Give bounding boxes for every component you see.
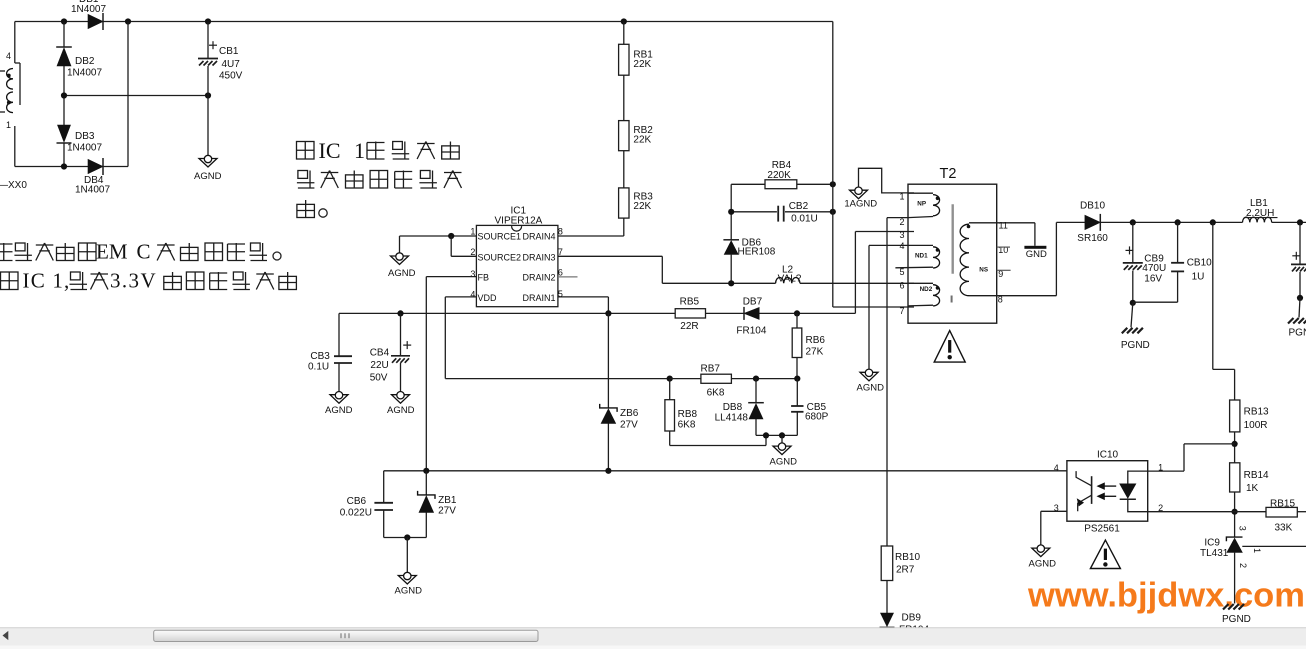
svg-text:VAL?: VAL? bbox=[778, 273, 802, 284]
svg-text:680P: 680P bbox=[805, 412, 829, 423]
wire HV rail down to T2 pin7 bbox=[832, 22, 834, 308]
resistor RB15 33K bbox=[1235, 511, 1266, 513]
capacitor CB5 680P bbox=[794, 376, 800, 382]
svg-text:6: 6 bbox=[558, 267, 563, 277]
svg-text:C: C bbox=[137, 240, 151, 264]
svg-text:1: 1 bbox=[470, 227, 475, 237]
diode DB8 LL4148 bbox=[753, 376, 759, 382]
svg-text:DB3: DB3 bbox=[75, 131, 95, 142]
svg-text:VIPER12A: VIPER12A bbox=[495, 216, 543, 227]
svg-text:3: 3 bbox=[1238, 526, 1248, 531]
svg-text:22K: 22K bbox=[633, 135, 651, 146]
svg-text:AGND: AGND bbox=[387, 405, 415, 416]
node top-left junctions bbox=[61, 18, 67, 24]
resistor RB13 100R bbox=[1230, 400, 1240, 432]
svg-text:1: 1 bbox=[6, 120, 11, 130]
IC10 light arrows bbox=[1101, 485, 1116, 487]
svg-text:RB13: RB13 bbox=[1244, 407, 1269, 418]
wire T2 pin8 riser to DB10 bbox=[1055, 222, 1057, 295]
node CB6/ZB1 bottom junction bbox=[404, 534, 410, 540]
diode DB4 1N4007 bbox=[88, 159, 103, 173]
svg-text:RB14: RB14 bbox=[1244, 470, 1269, 481]
capacitor CB9 470U 16V bbox=[1132, 222, 1134, 262]
wire RB13-RB14 bbox=[1234, 432, 1236, 463]
svg-text:CB2: CB2 bbox=[789, 201, 809, 212]
T2 winding ND2 bbox=[908, 282, 933, 284]
capacitor CB2 0.01U bbox=[731, 211, 777, 213]
wire feedback bus y471 bbox=[384, 470, 1067, 472]
wire T2 pin3 riser bbox=[854, 232, 856, 314]
diode DB2 1N4007 bbox=[56, 46, 72, 48]
svg-text:33K: 33K bbox=[1275, 523, 1293, 534]
resistor RB2 22K bbox=[619, 121, 629, 151]
wire L2 to T2 pin6 bbox=[800, 282, 914, 284]
svg-text:ZB1: ZB1 bbox=[438, 495, 457, 506]
diode DB6 HER108 bbox=[723, 239, 739, 241]
svg-text:27V: 27V bbox=[438, 506, 456, 517]
svg-text:22K: 22K bbox=[633, 201, 651, 212]
resistor RB6 27K bbox=[796, 313, 798, 328]
capacitor CB3 0.1U bbox=[338, 313, 340, 355]
svg-text:SR160: SR160 bbox=[1077, 233, 1108, 244]
wire IC1 pin1 SOURCE1 bbox=[400, 235, 477, 237]
svg-text:3: 3 bbox=[470, 269, 475, 279]
resistor RB1 22K bbox=[619, 44, 629, 75]
diode DB1 1N4007 bbox=[88, 14, 103, 28]
svg-text:DB9: DB9 bbox=[902, 613, 922, 624]
wire IC1 pin7 DRAIN3 to L2 bbox=[558, 255, 662, 257]
wire pin1 to AGND bbox=[399, 236, 401, 256]
ground AGND (T2 pin4) bbox=[860, 372, 878, 381]
svg-text:AGND: AGND bbox=[194, 171, 222, 182]
capacitor CB1 4U7 450V bbox=[207, 22, 209, 59]
svg-text:CB3: CB3 bbox=[310, 351, 330, 362]
svg-text:RB10: RB10 bbox=[895, 552, 920, 563]
svg-text:7: 7 bbox=[900, 306, 905, 316]
svg-text:6K8: 6K8 bbox=[678, 420, 696, 431]
wire bridge left vertical bbox=[63, 22, 65, 48]
ground AGND (IC10) bbox=[1032, 548, 1050, 557]
wire CB9 to PGND bbox=[1131, 303, 1133, 328]
svg-text:2: 2 bbox=[900, 217, 905, 227]
svg-text:2R7: 2R7 bbox=[896, 565, 915, 576]
T2 secondary winding NS bbox=[969, 222, 1035, 224]
svg-text:1N4007: 1N4007 bbox=[71, 4, 106, 15]
svg-text:EM: EM bbox=[96, 240, 128, 264]
svg-text:27V: 27V bbox=[620, 419, 638, 430]
ground 1AGND bbox=[850, 190, 868, 199]
wire 1AGND bracket bbox=[859, 168, 915, 193]
wire IC1 pin4 VDD path bbox=[445, 296, 476, 298]
wire feedback rail y313 bbox=[339, 312, 675, 314]
svg-text:22R: 22R bbox=[680, 321, 698, 332]
resistor RB14 1K bbox=[1230, 463, 1240, 492]
svg-text:SOURCE1: SOURCE1 bbox=[478, 232, 522, 242]
svg-text:DB10: DB10 bbox=[1080, 201, 1105, 212]
capacitor CB11 (right edge, cut) bbox=[1299, 222, 1301, 264]
svg-text:5: 5 bbox=[900, 267, 905, 277]
svg-text:10: 10 bbox=[998, 245, 1008, 255]
wire to AGND (DB8 net) bbox=[781, 435, 783, 445]
svg-text:1N4007: 1N4007 bbox=[75, 185, 110, 196]
svg-text:AGND: AGND bbox=[857, 383, 885, 394]
capacitor CB6 0.022U bbox=[383, 471, 385, 503]
wire T2 pin4 to AGND bbox=[869, 244, 908, 246]
resistor RB8 6K8 bbox=[669, 379, 671, 400]
scrollbar left arrow bbox=[3, 632, 8, 640]
wire DB8/CB5 bottom net bbox=[756, 434, 797, 436]
wire to AGND (CB6) bbox=[406, 538, 408, 576]
wire bridge right vertical bbox=[127, 22, 129, 167]
svg-text:1: 1 bbox=[1158, 462, 1163, 472]
annotation text: EMC filter circuit line 1 bbox=[0, 243, 13, 261]
svg-text:DRAIN3: DRAIN3 bbox=[522, 252, 555, 262]
IC10 internal LED bbox=[1128, 471, 1148, 484]
svg-text:RB7: RB7 bbox=[701, 363, 721, 374]
wire TL431 cathode down to PGND bbox=[1234, 552, 1236, 603]
warning triangle (under T2) bbox=[934, 331, 965, 363]
svg-text:1N4007: 1N4007 bbox=[67, 68, 102, 79]
svg-text:IC: IC bbox=[319, 138, 341, 163]
connector XX0 (cut off at left edge) bbox=[14, 22, 16, 64]
svg-text:AGND: AGND bbox=[395, 586, 423, 597]
svg-text:1: 1 bbox=[900, 192, 905, 202]
svg-text:16V: 16V bbox=[1144, 273, 1162, 284]
transistor/reference IC9 TL431 bbox=[1226, 537, 1242, 541]
svg-text:FR104: FR104 bbox=[736, 325, 766, 336]
IC10 phototransistor bbox=[1076, 471, 1092, 486]
svg-text:IC10: IC10 bbox=[1097, 449, 1119, 460]
T2 core bbox=[952, 204, 954, 273]
ground AGND (DB8/CB5) bbox=[773, 446, 791, 455]
wire bus to IC10 pin4 (already drawn), pin1 wire bbox=[1148, 470, 1184, 472]
opto-coupler IC10 PS2561 body bbox=[1067, 461, 1148, 522]
diode DB10 SR160 bbox=[1085, 215, 1100, 229]
svg-text:8: 8 bbox=[998, 295, 1003, 305]
wire RB1 chain top bbox=[623, 22, 625, 45]
diode DB9 FR104 bbox=[881, 613, 894, 626]
svg-text:www.bjjdwx.com: www.bjjdwx.com bbox=[1027, 577, 1305, 615]
svg-text:T2: T2 bbox=[940, 166, 957, 182]
wire IC1 pin2 SOURCE2 bbox=[451, 255, 476, 257]
wire RB1-RB2 bbox=[623, 75, 625, 120]
zener ZB1 27V bbox=[425, 471, 427, 495]
svg-text:22U: 22U bbox=[370, 360, 388, 371]
diode DB7 FR104 bbox=[744, 307, 759, 319]
svg-text:LL4148: LL4148 bbox=[715, 412, 749, 423]
svg-text:FB: FB bbox=[478, 273, 490, 283]
svg-text:2: 2 bbox=[1238, 563, 1248, 568]
svg-text:RB5: RB5 bbox=[680, 296, 700, 307]
svg-text:CB1: CB1 bbox=[219, 46, 239, 57]
op-amp U1 / controller IC1 VIPER12A body bbox=[476, 225, 558, 306]
svg-text:CB10: CB10 bbox=[1187, 257, 1212, 268]
ground PGND (right edge) bbox=[1288, 318, 1294, 324]
wire RB3 to IC1 pin8 bbox=[623, 218, 625, 236]
svg-text:4: 4 bbox=[1054, 463, 1059, 473]
wire IC10 pin2 to RB15 junction bbox=[1148, 511, 1235, 513]
svg-text:4U7: 4U7 bbox=[222, 59, 241, 70]
svg-text:0.022U: 0.022U bbox=[340, 508, 372, 519]
svg-text:NS: NS bbox=[979, 266, 988, 273]
svg-text:IC 1,: IC 1, bbox=[23, 269, 71, 293]
svg-text:450V: 450V bbox=[219, 71, 243, 82]
svg-text:PS2561: PS2561 bbox=[1084, 524, 1120, 535]
annotation text: you IC1 zu cheng de dian lu (standby control circuit) bbox=[297, 142, 315, 160]
svg-text:HER108: HER108 bbox=[738, 247, 776, 258]
scrollbar thumb grip bbox=[340, 633, 342, 638]
wire bridge bottom rail bbox=[15, 166, 128, 168]
annotation text: IC1 outputs 3.3V standby line 2 bbox=[1, 272, 19, 290]
ground PGND (TL431) bbox=[1223, 604, 1229, 610]
svg-text:AGND: AGND bbox=[388, 268, 416, 279]
svg-text:1K: 1K bbox=[1246, 483, 1259, 494]
svg-text:3.3V: 3.3V bbox=[110, 269, 157, 293]
wire TL431 ref to edge bbox=[1242, 545, 1306, 547]
svg-text:AGND: AGND bbox=[325, 405, 353, 416]
svg-text:DRAIN4: DRAIN4 bbox=[522, 232, 555, 242]
svg-text:4: 4 bbox=[6, 51, 11, 61]
wire IC1 pin3 FB vertical bbox=[426, 276, 476, 278]
wire CB11 to PGND bbox=[1299, 298, 1300, 318]
svg-text:PGND: PGND bbox=[1289, 328, 1306, 339]
svg-text:1: 1 bbox=[354, 138, 365, 163]
ground AGND (CB6/ZB1) bbox=[398, 576, 416, 585]
svg-text:RB6: RB6 bbox=[806, 335, 826, 346]
resistor RB7 6K8 bbox=[667, 376, 673, 382]
T2 pin9 stub bbox=[997, 269, 1011, 271]
svg-text:6K8: 6K8 bbox=[707, 387, 725, 398]
ground AGND (IC1 source) bbox=[391, 256, 409, 265]
svg-text:DRAIN1: DRAIN1 bbox=[522, 293, 555, 303]
svg-text:2: 2 bbox=[470, 247, 475, 257]
wire IC1 pin6 DRAIN2 stub bbox=[558, 276, 578, 278]
svg-text:3: 3 bbox=[900, 230, 905, 240]
resistor RB10 2R7 bbox=[881, 546, 893, 581]
svg-text:SOURCE2: SOURCE2 bbox=[478, 252, 522, 262]
warning triangle (under IC10) bbox=[1090, 540, 1120, 568]
svg-text:PGND: PGND bbox=[1222, 614, 1251, 625]
wire T2 pin11 to GND bbox=[1034, 223, 1036, 246]
svg-text:ND1: ND1 bbox=[915, 252, 928, 259]
svg-text:NP: NP bbox=[917, 200, 926, 207]
svg-text:4: 4 bbox=[470, 290, 475, 300]
capacitor CB4 22U 50V bbox=[400, 313, 402, 355]
svg-text:27K: 27K bbox=[806, 346, 824, 357]
svg-text:1: 1 bbox=[1252, 548, 1262, 553]
wire T2 pin2 down to RB10 bbox=[887, 217, 908, 219]
wire IC10 pin3 to AGND bbox=[1041, 510, 1067, 512]
svg-text:1AGND: 1AGND bbox=[844, 198, 877, 209]
svg-text:RB15: RB15 bbox=[1270, 498, 1295, 509]
svg-text:PGND: PGND bbox=[1121, 340, 1150, 351]
svg-text:DRAIN2: DRAIN2 bbox=[522, 273, 555, 283]
svg-text:100R: 100R bbox=[1244, 420, 1268, 431]
diode DB3 1N4007 bbox=[58, 125, 71, 142]
wire output rail bbox=[1100, 221, 1242, 223]
ground GND bar bbox=[1024, 246, 1046, 249]
svg-text:CB4: CB4 bbox=[370, 348, 390, 359]
svg-text:RB8: RB8 bbox=[678, 409, 698, 420]
wire LB1 to output bbox=[1272, 221, 1306, 223]
T2 winding ND1 bbox=[908, 244, 933, 246]
svg-text:AGND: AGND bbox=[1029, 558, 1057, 569]
wire top rail bbox=[15, 21, 833, 23]
svg-text:50V: 50V bbox=[370, 372, 388, 383]
T2 pin10 stub bbox=[997, 246, 1010, 248]
wire bridge mid rail bbox=[64, 95, 208, 97]
svg-text:AGND: AGND bbox=[770, 456, 798, 467]
wire RB14 to TL431 bbox=[1234, 492, 1236, 537]
T2 primary winding NP bbox=[908, 192, 933, 194]
svg-text:1U: 1U bbox=[1192, 271, 1205, 282]
wire IC1 pin5 DRAIN1 bbox=[558, 296, 609, 298]
svg-text:8: 8 bbox=[558, 227, 563, 237]
svg-text:0.1U: 0.1U bbox=[308, 362, 329, 373]
ground AGND (CB4) bbox=[392, 395, 410, 404]
ground AGND (CB3) bbox=[330, 395, 348, 404]
svg-text:11: 11 bbox=[999, 221, 1008, 231]
svg-text:220K: 220K bbox=[767, 170, 791, 181]
svg-text:GND: GND bbox=[1026, 249, 1047, 260]
svg-text:ZB6: ZB6 bbox=[620, 408, 639, 419]
svg-text:22K: 22K bbox=[633, 59, 651, 70]
svg-text:ND2: ND2 bbox=[920, 286, 933, 293]
inductor LB1 2.2UH bbox=[1243, 217, 1272, 222]
svg-text:DB2: DB2 bbox=[75, 56, 95, 67]
wire output branch to RB13 bbox=[1212, 222, 1214, 369]
wire RB10 to DB9 bbox=[886, 581, 888, 614]
svg-text:CB6: CB6 bbox=[347, 496, 367, 507]
svg-text:DB7: DB7 bbox=[743, 297, 763, 308]
svg-text:—XX0: —XX0 bbox=[0, 180, 27, 191]
resistor RB3 22K bbox=[619, 188, 629, 218]
svg-text:VDD: VDD bbox=[478, 293, 498, 303]
svg-text:0.01U: 0.01U bbox=[791, 213, 818, 224]
svg-text:7: 7 bbox=[558, 247, 563, 257]
transformer T2 body bbox=[908, 184, 997, 323]
wire snubber left vertical bbox=[730, 184, 732, 240]
ground AGND (under CB1) bbox=[199, 159, 217, 168]
wire RB2-RB3 bbox=[623, 151, 625, 188]
resistor RB5 22R bbox=[675, 309, 705, 318]
wire CB1 to ground bbox=[207, 96, 209, 159]
inductor L2 VAL? bbox=[776, 277, 800, 283]
svg-text:1N4007: 1N4007 bbox=[67, 143, 102, 154]
svg-text:TL431: TL431 bbox=[1200, 548, 1229, 559]
scrollbar track bbox=[0, 628, 1306, 646]
capacitor CB10 1U bbox=[1177, 222, 1179, 262]
ground PGND (CB9) bbox=[1122, 328, 1128, 334]
resistor RB4 220K bbox=[731, 183, 765, 185]
svg-text:6: 6 bbox=[900, 281, 905, 291]
zener ZB6 27V bbox=[607, 313, 609, 408]
